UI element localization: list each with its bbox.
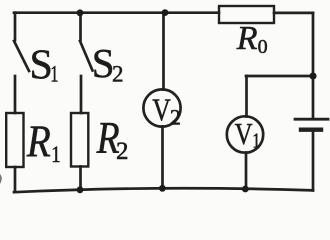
svg-text:2: 2: [170, 105, 181, 130]
svg-text:R: R: [236, 20, 258, 57]
svg-text:1: 1: [252, 129, 260, 153]
svg-text:V: V: [152, 91, 171, 127]
svg-text:V: V: [235, 116, 253, 151]
svg-text:1: 1: [51, 142, 60, 167]
svg-text:2: 2: [116, 138, 129, 165]
svg-text:2: 2: [112, 62, 124, 87]
svg-text:0: 0: [258, 36, 268, 58]
svg-text:R: R: [26, 115, 51, 166]
svg-text:1: 1: [50, 61, 58, 86]
